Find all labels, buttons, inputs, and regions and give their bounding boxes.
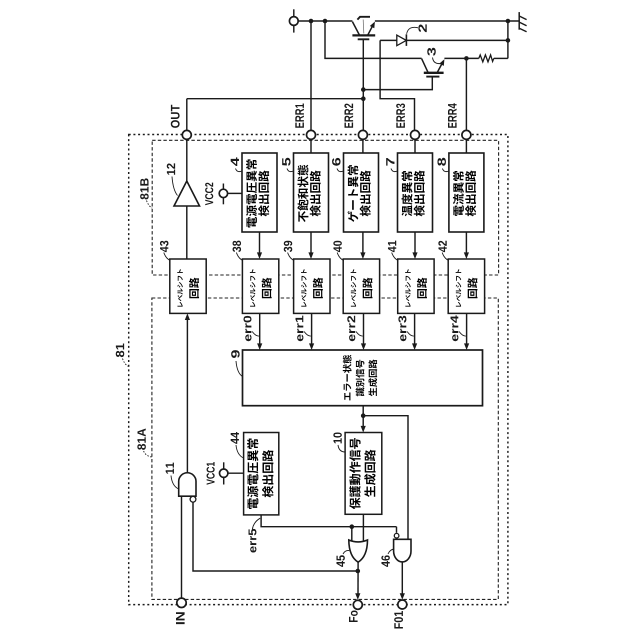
label 39 [284, 241, 293, 252]
terminal IN [177, 598, 186, 607]
wire err1 [311, 313, 313, 344]
label err2 [347, 316, 355, 341]
block 4 電源電圧異常検出回路 [242, 153, 277, 232]
junction top rail / ground branch [506, 19, 511, 24]
label 5 leader [287, 169, 294, 172]
label 12 leader [172, 177, 178, 196]
wire ERR4 feed [465, 58, 467, 130]
level shift block 38 レベルシフト回路 [242, 259, 278, 313]
label 10 [333, 432, 341, 443]
label 44 leader [236, 445, 244, 458]
wire err3 [414, 313, 416, 344]
block 7 温度異常検出回路 [398, 153, 433, 232]
block 5 不飽和状態検出回路 [294, 153, 329, 232]
wire collector-3 rail [325, 21, 422, 58]
level shift block 42 レベルシフト回路 [448, 259, 484, 313]
terminal ERR2 [358, 130, 367, 139]
wire diode to ERR3 feed [380, 40, 414, 130]
wire VCC1 to block 44 [228, 472, 244, 474]
junction gate link [361, 87, 366, 92]
wire IN to gate 11 [181, 496, 183, 598]
transistor 1 (IGBT) [352, 22, 375, 40]
label 4 [231, 157, 239, 166]
wire OUT terminal riser [186, 99, 188, 131]
junction OUT link [361, 96, 366, 101]
wire into level shifter [414, 232, 416, 254]
label err0 leader [252, 332, 259, 337]
level shift block 40 レベルシフト回路 [343, 259, 379, 313]
level shift block 39 レベルシフト回路 [294, 259, 330, 313]
label 1 leader [362, 20, 365, 34]
label 41 [388, 241, 396, 253]
label 45 [336, 555, 344, 567]
wire err2 [363, 313, 365, 344]
label 12 [167, 163, 175, 174]
wire OUT link [187, 98, 363, 100]
label 11 [166, 463, 174, 474]
arrowhead [412, 252, 417, 259]
label err4 leader [459, 332, 466, 337]
level shift block 43 レベルシフト回路 [170, 259, 206, 313]
wire ERR4 into block 8 [465, 139, 467, 153]
label 81 [116, 343, 124, 357]
dotted enclosure box 81 [129, 135, 508, 605]
wire ERR1 feed [310, 21, 312, 130]
arrowhead [309, 343, 314, 350]
label 46 leader [388, 549, 394, 554]
label err2 leader [356, 332, 363, 337]
label 3 [427, 48, 436, 56]
label err4 [451, 315, 459, 341]
wire err5 into gate 46 bubble [396, 527, 398, 533]
label 8 [437, 158, 445, 166]
buffer amplifier 12 [174, 181, 200, 206]
label 9 [231, 350, 239, 358]
wire ERR2 into block 6 [362, 139, 364, 153]
gate 45 (OR) [349, 540, 368, 562]
label 6 leader [337, 169, 344, 172]
wire gate 45 output to Fo [357, 563, 359, 596]
wire transistor-1 gate / ERR2 feed [362, 39, 364, 130]
arrowhead [360, 252, 365, 259]
transistor 3 (IGBT) [422, 59, 444, 77]
wire VCC2 stem [222, 184, 224, 205]
label VCC1 [207, 462, 215, 485]
arrowhead [361, 343, 366, 350]
resistor [479, 55, 494, 62]
dashed enclosure box 81A [152, 298, 498, 599]
wire emitter-3 to resistor [444, 57, 478, 59]
block 8 電流異常検出回路 [449, 153, 484, 232]
label 46 [381, 555, 389, 566]
wire top rail left [298, 20, 352, 22]
block 10 保護動作信号生成回路 [345, 433, 382, 515]
wire gate 11 output to level shift 43 [186, 319, 188, 473]
wire resistor to right drop [494, 57, 508, 59]
wire top rail right [375, 20, 519, 22]
label err1 leader [304, 332, 311, 337]
wire VCC2 to block 4 [228, 192, 242, 194]
wire terminal P stem [293, 9, 295, 32]
terminal VCC1 [220, 469, 228, 477]
label ERR4 [448, 103, 457, 128]
label 81A leader [144, 451, 152, 457]
terminal VCC2 [219, 189, 227, 197]
wire feedback to gate 11 inverted input [193, 502, 358, 571]
label 45 leader [343, 550, 349, 554]
terminal P (supply) [289, 17, 298, 26]
arrowhead [308, 252, 313, 259]
arrowhead to Fo [355, 593, 360, 600]
wire block 9 output [362, 406, 364, 427]
wire ERR1 into block 5 [310, 139, 312, 153]
block 6 ゲート異常検出回路 [344, 153, 379, 232]
wire branch to gate 46 [363, 416, 408, 540]
label 3 leader [433, 58, 441, 64]
label 10 leader [338, 445, 345, 452]
wire err4 [466, 313, 468, 344]
wire VCC1 stem [223, 462, 225, 484]
wire err5 from block 44 [261, 515, 396, 527]
wire diode rail [380, 39, 508, 41]
label 40 leader [337, 253, 344, 261]
wire gate 46 output to FO1 [401, 562, 403, 596]
gate 11 input bubble [190, 496, 196, 502]
arrowhead to FO1 [400, 593, 405, 600]
wire into level shifter [362, 232, 364, 254]
arrowhead into block 10 [361, 426, 366, 433]
label 81B leader [147, 201, 153, 209]
label ERR1 [295, 103, 304, 127]
label err5 [249, 529, 257, 553]
dashed enclosure box 81B [152, 140, 498, 275]
junction top rail / collector-3 feed [323, 19, 328, 24]
label F01 [394, 611, 403, 628]
block 44 電源電圧異常検出回路 [244, 433, 279, 515]
terminal ERR1 [307, 130, 316, 139]
wire buffer 12 to level shift 43 [186, 206, 188, 259]
level shift block 41 レベルシフト回路 [398, 259, 434, 313]
transistor 1 emitter arrow [370, 22, 375, 29]
arrowhead [464, 343, 469, 350]
label 42 [438, 241, 446, 252]
label 39 leader [288, 253, 295, 261]
label 43 leader [164, 253, 171, 261]
wire into level shifter [310, 232, 312, 254]
wire into level shifter [465, 232, 467, 254]
label 1 [357, 17, 370, 20]
wire ERR3 into block 7 [414, 139, 416, 153]
diode 2 [397, 34, 407, 46]
label err3 leader [407, 332, 414, 337]
label ERR2 [344, 104, 353, 128]
label 7 [386, 158, 394, 166]
arrowhead [412, 343, 417, 350]
label 2 [418, 24, 426, 32]
label 40 [333, 241, 341, 252]
block 9 エラー状態識別信号生成回路 [243, 350, 483, 406]
junction feedback tap [356, 569, 361, 574]
junction block 9 output branch [361, 413, 366, 418]
label err3 [398, 316, 406, 341]
label IN [176, 612, 185, 624]
label OUT [171, 105, 180, 128]
label 38 [233, 241, 242, 252]
wire right drop [507, 21, 509, 58]
label 81 leader [123, 359, 129, 367]
label 81A [137, 429, 145, 450]
label 9 leader [236, 361, 243, 377]
label 6 [332, 158, 340, 166]
label 5 [282, 158, 290, 166]
arrowhead into level shift 43 [185, 313, 190, 320]
label 43 [160, 241, 169, 252]
terminal OUT [182, 130, 191, 139]
terminal ERR4 [462, 130, 471, 139]
gate 11 (AND, inverted input) [179, 473, 196, 496]
junction top rail / ERR1 feed [309, 19, 314, 24]
label 7 leader [391, 169, 398, 172]
label 42 leader [442, 253, 449, 261]
wire into level shifter [259, 232, 261, 254]
label 41 leader [392, 253, 399, 261]
label err0 [243, 316, 251, 341]
wire OUT to buffer 12 [186, 139, 188, 181]
label ERR3 [396, 104, 405, 128]
wire err0 [259, 313, 261, 344]
terminal ERR3 [411, 130, 420, 139]
label VCC2 [205, 183, 213, 206]
label err1 [296, 316, 304, 342]
terminal FO1 [398, 600, 407, 609]
label err5 leader [252, 518, 260, 529]
junction diode rail [506, 38, 511, 43]
label 81B [140, 178, 148, 199]
wire err5 into gate 45 [351, 527, 353, 541]
transistor 3 emitter arrow [439, 59, 444, 66]
label 44 [231, 432, 239, 444]
label 38 leader [236, 253, 243, 261]
arrowhead [257, 252, 262, 259]
ground (chassis) [519, 12, 526, 32]
terminal Fo [353, 600, 362, 609]
arrowhead [464, 252, 469, 259]
label 4 leader [236, 169, 243, 172]
label 8 leader [442, 169, 449, 172]
gate 46 (AND, inverted input) [394, 539, 411, 562]
wire block 10 to gate 45 [362, 514, 364, 546]
label 11 leader [171, 476, 179, 490]
label 2 leader [407, 27, 418, 33]
arrowhead [257, 343, 262, 350]
label Fo [349, 611, 358, 622]
junction emitter-3 / ERR4 feed [464, 56, 469, 61]
gate 46 input bubble [394, 533, 399, 538]
wire gate link to transistor 3 [363, 77, 432, 90]
junction err5 / gate 45 [350, 524, 355, 529]
